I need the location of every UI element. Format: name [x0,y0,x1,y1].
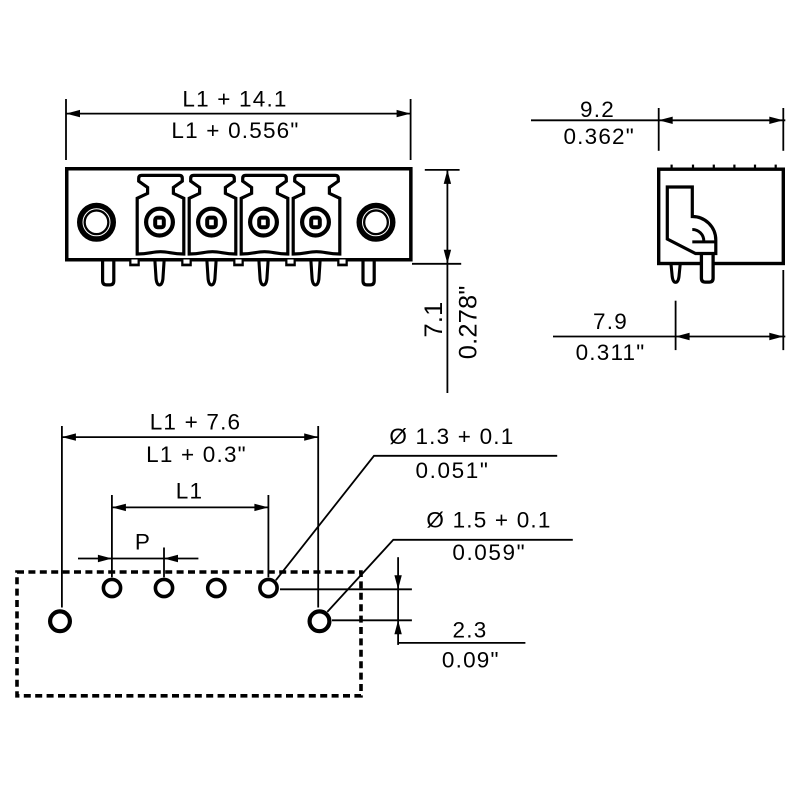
svg-text:Ø 1.5 + 0.1: Ø 1.5 + 0.1 [426,508,551,533]
svg-text:L1 + 14.1: L1 + 14.1 [182,86,287,111]
svg-text:9.2: 9.2 [580,97,615,122]
svg-text:7.9: 7.9 [593,309,628,334]
svg-text:0.362": 0.362" [563,124,635,149]
svg-text:0.059": 0.059" [452,540,526,565]
svg-text:0.311": 0.311" [576,340,646,365]
svg-text:L1 + 0.556": L1 + 0.556" [171,118,299,143]
svg-text:2.3: 2.3 [453,618,488,643]
svg-text:0.278": 0.278" [455,285,483,359]
svg-text:0.051": 0.051" [416,458,490,483]
svg-text:L1 + 7.6: L1 + 7.6 [150,409,242,434]
svg-text:L1 + 0.3": L1 + 0.3" [146,442,247,467]
svg-text:0.09": 0.09" [442,647,500,672]
svg-text:P: P [135,529,151,554]
svg-text:7.1: 7.1 [420,302,448,338]
svg-text:Ø 1.3 + 0.1: Ø 1.3 + 0.1 [389,424,514,449]
svg-text:L1: L1 [176,478,203,503]
